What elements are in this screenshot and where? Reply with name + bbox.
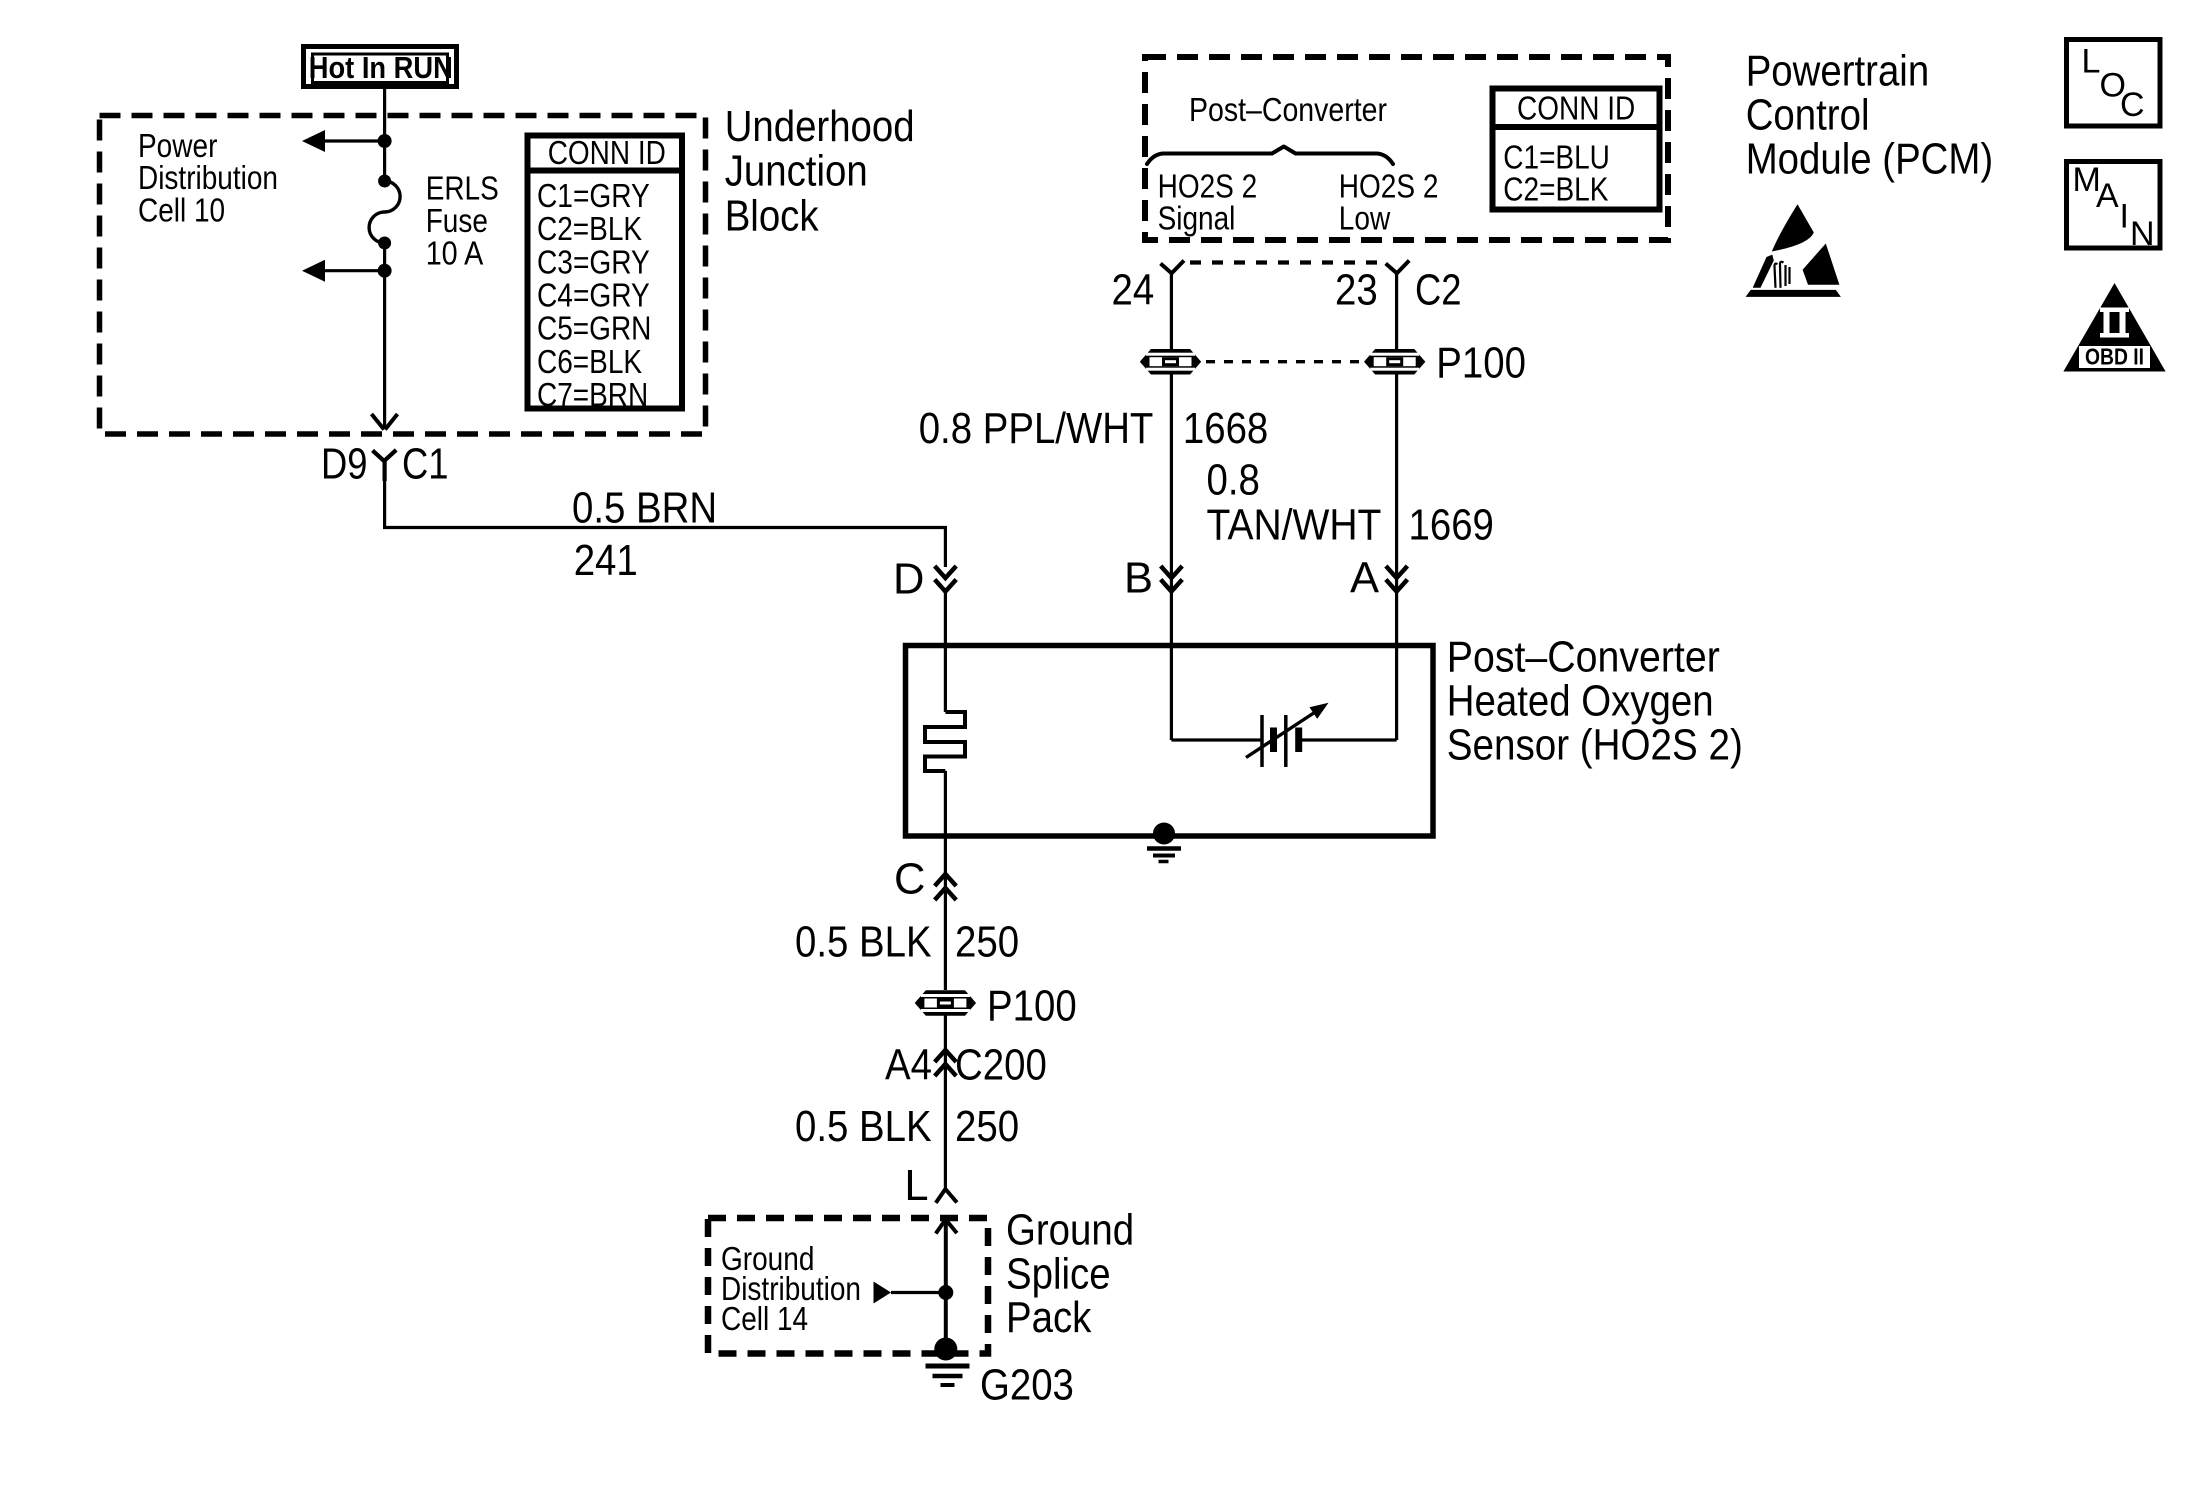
wire into splice pack xyxy=(944,1220,948,1350)
0.5 BLK 250 label (upper) xyxy=(795,919,1019,967)
svg-text:Underhood: Underhood xyxy=(725,103,915,151)
HO2S 2 Signal label xyxy=(1158,168,1258,237)
P100 inline connector (lower) xyxy=(916,992,974,1015)
svg-text:250: 250 xyxy=(955,1103,1019,1151)
OBD II symbol xyxy=(2063,283,2165,372)
ground at sensor box xyxy=(1147,823,1181,862)
0.5 BLK 250 label (lower) xyxy=(795,1103,1019,1151)
Power Distribution Cell 10 label xyxy=(138,127,278,229)
svg-text:C2=BLK: C2=BLK xyxy=(537,210,642,247)
svg-text:Splice: Splice xyxy=(1006,1251,1111,1299)
svg-text:Module (PCM): Module (PCM) xyxy=(1746,136,1994,184)
svg-text:10 A: 10 A xyxy=(426,234,484,271)
svg-text:G203: G203 xyxy=(980,1362,1074,1410)
svg-text:A: A xyxy=(2096,177,2119,215)
svg-text:0.8 PPL/WHT: 0.8 PPL/WHT xyxy=(919,405,1154,453)
svg-text:Post–Converter: Post–Converter xyxy=(1189,91,1387,128)
svg-text:241: 241 xyxy=(574,537,638,585)
ERLS Fuse 10 A label xyxy=(426,170,499,272)
svg-text:23: 23 xyxy=(1335,266,1378,314)
sensor element wire (left) xyxy=(1171,738,1262,741)
svg-text:A: A xyxy=(1350,555,1379,603)
wire from fuse to exit arrow xyxy=(383,243,386,429)
sensor element wire (right) xyxy=(1299,738,1397,741)
svg-text:Ground: Ground xyxy=(1006,1207,1134,1255)
wire pin 23 to A xyxy=(1395,272,1398,740)
connector A4/C200 arrow xyxy=(935,1050,957,1076)
svg-text:Control: Control xyxy=(1746,92,1870,140)
svg-text:0.5 BLK: 0.5 BLK xyxy=(795,1103,932,1151)
P100 inline connector (left) xyxy=(1142,350,1200,373)
svg-text:C1: C1 xyxy=(402,441,449,489)
svg-text:1669: 1669 xyxy=(1409,502,1494,550)
svg-text:CONN ID: CONN ID xyxy=(548,134,666,171)
Hot In RUN box xyxy=(304,47,457,87)
0.8 TAN/WHT label xyxy=(1207,456,1382,549)
HO2S 2 Low label xyxy=(1339,168,1439,237)
connector B arrow xyxy=(1161,566,1183,592)
svg-text:Junction: Junction xyxy=(725,148,868,196)
CONN ID table (PCM) xyxy=(1492,89,1660,210)
C1=BLU C2=BLK rows xyxy=(1503,139,1610,208)
svg-text:24: 24 xyxy=(1112,266,1155,314)
Ground Distribution Cell 14 label xyxy=(721,1240,861,1337)
svg-text:C: C xyxy=(2120,86,2145,124)
wire heater to C xyxy=(944,771,947,990)
svg-text:OBD II: OBD II xyxy=(2085,344,2144,370)
svg-text:C: C xyxy=(894,856,925,904)
svg-text:B: B xyxy=(1124,555,1153,603)
svg-text:C2=BLK: C2=BLK xyxy=(1503,171,1608,208)
down arrowhead at junction block exit xyxy=(372,414,398,430)
P100 inline connector (right) xyxy=(1366,350,1424,373)
svg-text:D9: D9 xyxy=(321,441,368,489)
G203 ground symbol xyxy=(926,1338,970,1386)
0.5 BRN wire run xyxy=(385,479,946,567)
svg-text:Post–Converter: Post–Converter xyxy=(1447,633,1720,681)
wire from Hot In RUN to fuse xyxy=(383,87,386,182)
svg-text:C200: C200 xyxy=(955,1042,1047,1090)
svg-text:A4: A4 xyxy=(885,1042,932,1090)
svg-text:C6=BLK: C6=BLK xyxy=(537,343,642,380)
svg-text:D: D xyxy=(893,556,924,604)
svg-text:I: I xyxy=(2120,198,2129,236)
svg-text:Block: Block xyxy=(725,192,819,240)
svg-text:CONN ID: CONN ID xyxy=(1517,89,1635,126)
branch arrow from ground distribution xyxy=(874,1282,946,1304)
svg-text:0.8: 0.8 xyxy=(1207,456,1260,504)
svg-text:Pack: Pack xyxy=(1006,1294,1092,1342)
ESD symbol xyxy=(1746,204,1841,297)
Ground Splice Pack dashed box xyxy=(708,1218,988,1354)
connector D9/C1 Y symbol xyxy=(373,450,397,481)
dashed line pin24-pin23 xyxy=(1190,260,1382,264)
splice pack entry arrowhead xyxy=(936,1220,957,1234)
wire D into sensor box xyxy=(944,590,947,712)
PCM pin 24 Y connector xyxy=(1161,261,1185,274)
PCM dashed box xyxy=(1145,57,1668,240)
svg-text:P100: P100 xyxy=(1436,340,1526,388)
junction dot in splice pack xyxy=(938,1285,953,1300)
branch arrow to Power Distribution (upper) xyxy=(302,130,385,152)
Underhood Junction Block label xyxy=(725,103,915,240)
connector C arrow xyxy=(935,874,957,900)
MAIN symbol xyxy=(2067,161,2161,253)
junction dot (upper branch) xyxy=(378,134,392,148)
svg-text:Low: Low xyxy=(1339,200,1391,237)
svg-text:C2: C2 xyxy=(1415,266,1462,314)
svg-text:Powertrain: Powertrain xyxy=(1746,48,1930,96)
ERLS fuse xyxy=(369,175,400,250)
wire P100 to L connector xyxy=(944,1015,947,1191)
svg-text:C7=BRN: C7=BRN xyxy=(537,376,648,413)
HO2S sensor box xyxy=(906,646,1434,837)
svg-text:250: 250 xyxy=(955,919,1019,967)
LOC symbol xyxy=(2067,40,2161,127)
connector A arrow xyxy=(1386,566,1408,592)
svg-text:L: L xyxy=(2082,43,2101,81)
svg-text:C5=GRN: C5=GRN xyxy=(537,310,651,347)
svg-text:Distribution: Distribution xyxy=(138,159,278,196)
svg-text:C3=GRY: C3=GRY xyxy=(537,243,650,280)
Underhood Junction Block dashed box xyxy=(100,116,706,435)
svg-text:C1=GRY: C1=GRY xyxy=(537,177,650,214)
Post-Converter Heated Oxygen Sensor label xyxy=(1447,633,1743,769)
svg-text:Hot In RUN: Hot In RUN xyxy=(309,50,453,85)
branch arrow to Power Distribution (lower) xyxy=(302,260,385,282)
svg-text:N: N xyxy=(2130,215,2155,253)
PCM pin 23 Y connector xyxy=(1386,261,1410,274)
svg-text:1668: 1668 xyxy=(1183,405,1268,453)
svg-text:Cell 14: Cell 14 xyxy=(721,1300,808,1337)
svg-text:Signal: Signal xyxy=(1158,200,1236,237)
connector colour rows xyxy=(537,177,651,413)
heater element xyxy=(925,712,965,771)
svg-text:0.5 BLK: 0.5 BLK xyxy=(795,919,932,967)
CONN ID table (underhood) xyxy=(527,136,682,409)
svg-text:C4=GRY: C4=GRY xyxy=(537,277,650,314)
svg-text:Heated Oxygen: Heated Oxygen xyxy=(1447,677,1714,725)
svg-text:Sensor (HO2S 2): Sensor (HO2S 2) xyxy=(1447,721,1743,769)
Powertrain Control Module (PCM) label xyxy=(1746,48,1994,184)
svg-text:L: L xyxy=(904,1162,928,1210)
svg-text:P100: P100 xyxy=(987,983,1077,1031)
variable sensor element xyxy=(1246,703,1329,767)
svg-text:0.5 BRN: 0.5 BRN xyxy=(572,485,717,533)
svg-text:TAN/WHT: TAN/WHT xyxy=(1207,502,1382,550)
connector L Y symbol xyxy=(936,1189,957,1203)
brace xyxy=(1147,147,1393,165)
dashed line between P100 connectors xyxy=(1206,360,1360,363)
svg-text:Cell 10: Cell 10 xyxy=(138,192,225,229)
Ground Splice Pack label xyxy=(1006,1207,1134,1343)
wire pin 24 to B xyxy=(1170,272,1173,740)
connector D arrow xyxy=(935,566,957,592)
junction dot (lower branch) xyxy=(378,264,392,278)
